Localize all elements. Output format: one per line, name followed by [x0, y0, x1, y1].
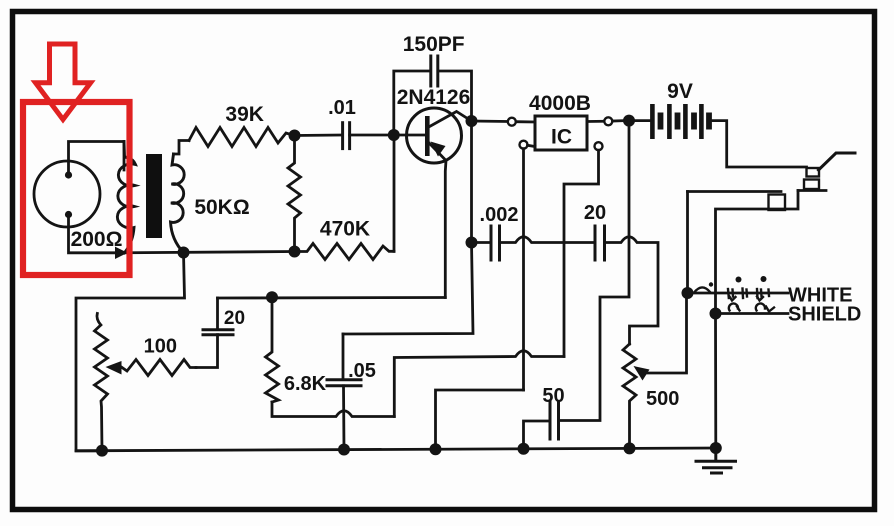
svg-text:.05: .05: [348, 360, 376, 382]
wire 470K right end up to base junction: [393, 135, 396, 251]
potentiometer 500: [623, 344, 636, 448]
capacitor 20 (emitter bypass top): [216, 298, 219, 329]
node bus: 500 pot: [624, 442, 636, 454]
wire 20 cap right with hop over battery line: [606, 237, 659, 344]
capacitor .002: [472, 241, 491, 244]
capacitor 50: [524, 421, 550, 449]
svg-text:150PF: 150PF: [403, 33, 465, 56]
node .002 junction: [466, 237, 478, 249]
node 6.8K top junction: [266, 291, 278, 303]
ground bus wire: [76, 448, 716, 451]
svg-text:50: 50: [542, 385, 564, 407]
svg-text:IC: IC: [551, 126, 572, 149]
svg-text:39K: 39K: [225, 103, 264, 126]
wire junction to .01 cap: [295, 134, 342, 137]
node: 39K/.01 junction: [289, 130, 301, 142]
wire secondary top to 39K: [174, 141, 190, 155]
resistor 100: [122, 360, 196, 376]
svg-text:.002: .002: [480, 204, 519, 226]
node SHIELD: [710, 308, 722, 320]
transformer T1 secondary coil: [171, 154, 185, 253]
transformer T1 core: [146, 154, 162, 238]
node bus: pot100: [96, 445, 108, 457]
pin: open terminal left of IC: [508, 118, 516, 126]
wire y416 with hop over .05 line: [272, 402, 394, 417]
ground symbol: [696, 448, 736, 473]
resistor 6.8K: [266, 297, 279, 402]
svg-text:500: 500: [646, 388, 679, 410]
jack contact square S2: [804, 180, 819, 190]
svg-text:200Ω: 200Ω: [71, 228, 123, 251]
resistor (vertical, junction to lower rail): [288, 136, 301, 252]
wire .002 to 20 with hop over IC-pin line: [501, 237, 595, 243]
node bus: .05: [338, 444, 350, 456]
svg-text:20: 20: [584, 202, 606, 224]
node: battery junction: [623, 115, 635, 127]
svg-text:2N4126: 2N4126: [397, 86, 471, 109]
resistor 39K: [189, 128, 294, 147]
op-amp U1 IC box 4000B: [535, 116, 587, 150]
svg-text:50KΩ: 50KΩ: [194, 196, 249, 219]
wire IC bottom-left pin down: [522, 149, 525, 390]
node: transformer secondary bottom junction: [178, 247, 190, 259]
wire jack tip down to WHITE node: [686, 192, 689, 294]
jack contact square S1: [807, 168, 820, 177]
wire junction to battery: [629, 119, 650, 122]
battery B1 9V: [650, 104, 712, 139]
svg-text:6.8K: 6.8K: [284, 373, 327, 395]
resistor 470K: [295, 244, 395, 260]
pin: IC bottom-left open terminal: [520, 141, 528, 149]
node bus: IC pin drop: [430, 443, 442, 455]
wire IC bottom-right pin staircase to 6.8K: [564, 150, 599, 356]
wire emitter run: [218, 296, 446, 299]
transistor Q1 2N4126: [394, 108, 472, 298]
jack S2 base line: [798, 189, 826, 192]
wire shield node to ground bus: [714, 314, 717, 449]
svg-text:9V: 9V: [667, 80, 693, 103]
node WHITE: [682, 287, 694, 299]
wire rail to left drop: [76, 253, 185, 451]
jack tip line: [688, 190, 782, 193]
svg-text:470K: 470K: [320, 218, 370, 241]
arrow of 100 into pot: [106, 361, 122, 375]
capacitor 150PF loop: [394, 71, 430, 130]
wire rail (mic junction to 470K junction): [121, 252, 295, 253]
capacitor .01: [343, 123, 350, 149]
node: rail junction below: [289, 246, 301, 258]
red arrow pointer: [36, 44, 91, 120]
wire .05 top to .002 junction vertical: [343, 243, 473, 335]
transformer T1 primary coil: [117, 142, 135, 253]
jack contact square S3: [769, 195, 786, 211]
pin: IC bottom-right open terminal: [595, 142, 603, 150]
wire .01 to base: [350, 134, 394, 137]
pin: IC right open terminal: [587, 120, 604, 123]
wire mic top to transformer primary: [69, 142, 125, 176]
wire S2 to shield vertical: [716, 191, 799, 314]
wiper arrow of 500: [634, 366, 650, 381]
svg-text:.01: .01: [328, 97, 356, 119]
wire 50 right to battery staircase: [560, 126, 630, 421]
node bus: 50 cap: [518, 443, 530, 455]
microphone MIC element: [34, 161, 100, 227]
capacitor 20 (coupling): [595, 226, 605, 260]
svg-text:SHIELD: SHIELD: [788, 304, 861, 326]
node: base junction: [388, 129, 400, 141]
wire corner to bus: [436, 390, 524, 449]
node: collector junction: [466, 115, 478, 127]
svg-text:100: 100: [144, 336, 177, 358]
svg-text:20: 20: [224, 308, 245, 329]
wire .002/20 row: collector junction down: [470, 121, 473, 243]
jack spring contact (angled): [819, 153, 856, 170]
wire mic bottom to junction: [69, 215, 115, 253]
red rectangle highlight: [23, 102, 130, 275]
node bus: ground: [710, 442, 722, 454]
wire SHIELD lead: [716, 312, 789, 315]
twisted pair decoration: [694, 287, 774, 311]
wire collector to IC pin: [472, 120, 508, 123]
wire WHITE lead: [688, 292, 789, 295]
svg-text:4000B: 4000B: [529, 92, 591, 115]
potentiometer 100 (vertical): [97, 314, 101, 326]
capacitor .05: [342, 334, 345, 379]
junction arrow at node A: [115, 247, 128, 259]
wire battery to jack: [711, 121, 806, 167]
wire y356 with hop over IC-pin line: [394, 351, 564, 417]
